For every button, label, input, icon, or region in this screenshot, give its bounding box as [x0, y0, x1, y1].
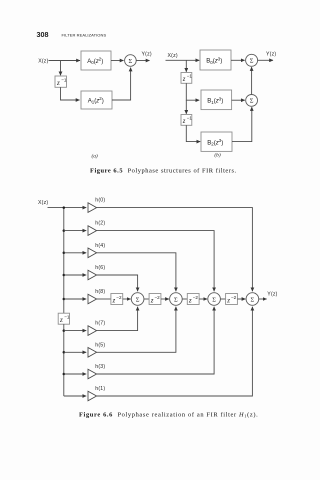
adder sigma4 (6.6)	[246, 293, 259, 306]
wire B0 to adder top (b)	[231, 59, 245, 61]
gain h(7)	[88, 326, 97, 336]
junction dot h(8)	[63, 298, 66, 301]
junction dot h(7)	[63, 329, 66, 332]
svg-text:−1: −1	[187, 74, 193, 79]
delay z-1 bus (6.6)	[58, 313, 69, 324]
wire z-1 to A1	[61, 87, 80, 100]
adder sigma2 (6.6)	[170, 293, 183, 306]
delay z-1 lower (b)	[181, 115, 192, 126]
junction dot h(5)	[63, 351, 66, 354]
svg-text:B0(z3): B0(z3)	[206, 56, 222, 64]
gain h(8)	[88, 294, 97, 304]
adder sigma1 (6.6)	[131, 293, 144, 306]
wire adder4 to Y(z) (6.6)	[259, 298, 267, 300]
wire h(8) to delay1 chain	[97, 298, 111, 300]
svg-text:h(2): h(2)	[95, 221, 105, 227]
adder sigma mid (b)	[246, 95, 258, 107]
wire A1 up to adder (a)	[112, 68, 131, 100]
bus vertical lower	[63, 324, 65, 396]
wire adder1 to delay2	[144, 298, 149, 300]
svg-text:Σ: Σ	[212, 296, 216, 303]
wire X(z) into bus	[48, 207, 87, 209]
svg-text:−1: −1	[64, 314, 70, 319]
wire adder to Y(z) (a)	[136, 60, 149, 62]
block A0(z^2)	[81, 51, 111, 70]
delay z-2 first	[111, 294, 123, 305]
svg-text:FILTER REALIZATIONS: FILTER REALIZATIONS	[62, 32, 107, 37]
gain h(3)	[88, 369, 97, 379]
svg-text:z: z	[59, 316, 63, 324]
svg-text:B2(z3): B2(z3)	[207, 138, 223, 147]
wire delay3 to adder3	[199, 298, 207, 300]
wire tap to h(8)	[64, 298, 86, 300]
wire h(1) to adder4 bottom	[97, 307, 253, 396]
delay z-2 third	[187, 294, 199, 305]
wire h(7) to adder1 bottom	[97, 307, 138, 331]
wire tap to h(7)	[64, 330, 86, 332]
svg-text:z: z	[112, 296, 116, 304]
wire B2 up to adder mid (b)	[232, 107, 252, 142]
wire tap to h(6)	[64, 274, 86, 276]
svg-text:308: 308	[37, 30, 49, 39]
svg-text:z: z	[56, 79, 60, 87]
wire adder2 to delay3	[182, 298, 187, 300]
adder sigma (a)	[125, 55, 137, 67]
wire tap to h(1)	[64, 395, 86, 397]
junction dot h(6)	[63, 274, 66, 277]
gain h(5)	[88, 348, 97, 358]
svg-text:h(8): h(8)	[95, 289, 105, 295]
svg-text:h(5): h(5)	[95, 342, 105, 348]
block A1(z^2)	[81, 91, 112, 109]
svg-text:Σ: Σ	[250, 98, 254, 105]
svg-text:Σ: Σ	[250, 58, 254, 65]
svg-text:(a): (a)	[91, 152, 97, 159]
svg-text:Y(z): Y(z)	[267, 291, 277, 297]
gain h(6)	[88, 270, 97, 280]
delay z-1 upper (b)	[181, 73, 192, 84]
svg-text:Σ: Σ	[129, 58, 133, 65]
wire delay4 to adder4	[237, 298, 245, 300]
junction dot h(2)	[63, 229, 66, 232]
wire adder mid up to adder top (b)	[251, 67, 253, 94]
svg-text:z: z	[226, 296, 230, 304]
svg-text:X(z): X(z)	[38, 200, 48, 206]
svg-text:h(1): h(1)	[95, 386, 105, 392]
svg-text:h(4): h(4)	[95, 243, 105, 249]
svg-text:h(0): h(0)	[95, 198, 105, 204]
junction dot h(3)	[63, 373, 66, 376]
wire h(5) to adder2 bottom	[97, 307, 176, 353]
adder sigma3 (6.6)	[208, 293, 221, 306]
svg-text:z: z	[188, 296, 192, 304]
wire delay1 to adder1	[123, 298, 131, 300]
svg-text:−1: −1	[61, 77, 67, 82]
junction dot h(4)	[63, 252, 66, 255]
svg-text:Σ: Σ	[174, 296, 178, 303]
delay z-2 second	[149, 294, 161, 305]
wire tap to h(4)	[64, 252, 86, 254]
wire B1 to adder mid (b)	[232, 99, 245, 101]
svg-text:h(7): h(7)	[95, 321, 105, 327]
wire adder3 to delay4	[220, 298, 225, 300]
wire z-1 to B2 (b)	[186, 125, 200, 141]
wire tap to h(2)	[64, 230, 86, 232]
wire h(0) to adder4 top	[97, 208, 253, 292]
svg-text:(b): (b)	[214, 151, 220, 158]
svg-text:Figure 6.6Polyphase realizatio: Figure 6.6Polyphase realization of an FI…	[79, 411, 258, 418]
svg-text:Figure 6.5Polyphase structures: Figure 6.5Polyphase structures of FIR fi…	[90, 168, 237, 175]
wire h(2) to adder3 top	[97, 231, 215, 292]
svg-text:h(6): h(6)	[95, 265, 105, 271]
gain h(0)	[88, 203, 97, 213]
wire tap to h(3)	[64, 373, 86, 375]
svg-text:X(z): X(z)	[168, 53, 178, 59]
svg-text:−2: −2	[231, 295, 237, 300]
wire tap down to z-1 (a)	[60, 61, 62, 76]
svg-text:Y(z): Y(z)	[266, 51, 276, 57]
wire h(6) to adder1 top	[97, 275, 138, 291]
svg-text:−2: −2	[116, 295, 122, 300]
wire X(z) to B0	[166, 59, 200, 61]
wire z-1 to B1 row (b)	[186, 83, 199, 100]
block B1(z^3)	[201, 90, 232, 110]
svg-text:Σ: Σ	[136, 296, 140, 303]
svg-text:Y(z): Y(z)	[142, 52, 152, 58]
wire tap to h(5)	[64, 351, 86, 353]
block B0(z^3)	[200, 50, 231, 70]
svg-text:A0(z2): A0(z2)	[87, 57, 103, 66]
adder sigma top (b)	[246, 54, 258, 66]
gain h(4)	[88, 248, 97, 258]
wire X(z) to A0	[49, 60, 81, 62]
gain h(1)	[88, 391, 97, 401]
svg-text:z: z	[150, 296, 154, 304]
wire adder to Y(z) (b)	[258, 59, 273, 61]
delay z-2 fourth	[226, 294, 238, 305]
svg-text:A1(z2): A1(z2)	[88, 96, 104, 105]
svg-text:X(z): X(z)	[38, 59, 48, 65]
wire h(4) to adder2 top	[97, 253, 176, 291]
bus vertical upper	[63, 208, 65, 314]
wire h(3) to adder3 bottom	[97, 307, 215, 374]
svg-text:z: z	[182, 118, 186, 125]
wire tap down to z-1 first (b)	[185, 60, 187, 72]
wire tap down to z-1 second (b)	[185, 100, 187, 114]
wire delay2 to adder2	[161, 298, 169, 300]
delay z-1 (a)	[55, 76, 67, 87]
gain h(2)	[88, 226, 97, 236]
svg-text:−2: −2	[193, 295, 199, 300]
junction dot h(0)	[63, 206, 66, 209]
block B2(z^3)	[201, 132, 232, 151]
svg-text:−2: −2	[155, 295, 161, 300]
svg-text:z: z	[182, 76, 186, 83]
svg-text:B1(z3): B1(z3)	[207, 96, 223, 105]
svg-text:Σ: Σ	[251, 296, 255, 303]
svg-text:−1: −1	[187, 116, 193, 121]
wire A0 to adder (a)	[111, 60, 124, 62]
svg-text:h(3): h(3)	[95, 364, 105, 370]
